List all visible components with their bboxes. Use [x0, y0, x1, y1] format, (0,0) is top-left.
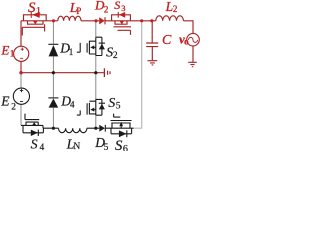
svg-text:1: 1 — [36, 6, 41, 17]
svg-text:4: 4 — [70, 100, 75, 110]
svg-text:2: 2 — [113, 51, 118, 61]
svg-text:P: P — [76, 6, 81, 16]
svg-text:S: S — [108, 96, 115, 111]
svg-text:3: 3 — [121, 3, 125, 13]
svg-text:C: C — [162, 33, 172, 48]
svg-text:5: 5 — [116, 101, 121, 111]
svg-text:1: 1 — [69, 47, 74, 57]
svg-text:4: 4 — [40, 143, 45, 151]
svg-text:S: S — [28, 0, 36, 16]
svg-text:L: L — [165, 0, 174, 14]
svg-text:N: N — [73, 142, 80, 151]
svg-text:E: E — [0, 94, 10, 109]
svg-text:5: 5 — [104, 143, 109, 151]
svg-text:E: E — [0, 43, 9, 58]
svg-text:6: 6 — [123, 144, 128, 151]
svg-text:2: 2 — [11, 103, 16, 113]
svg-text:S: S — [115, 138, 123, 151]
svg-text:S: S — [31, 138, 38, 152]
svg-text:S: S — [114, 0, 120, 12]
svg-text:2: 2 — [104, 4, 109, 14]
svg-text:2: 2 — [173, 4, 178, 14]
svg-text:o: o — [184, 37, 189, 47]
svg-text:1: 1 — [10, 49, 15, 59]
